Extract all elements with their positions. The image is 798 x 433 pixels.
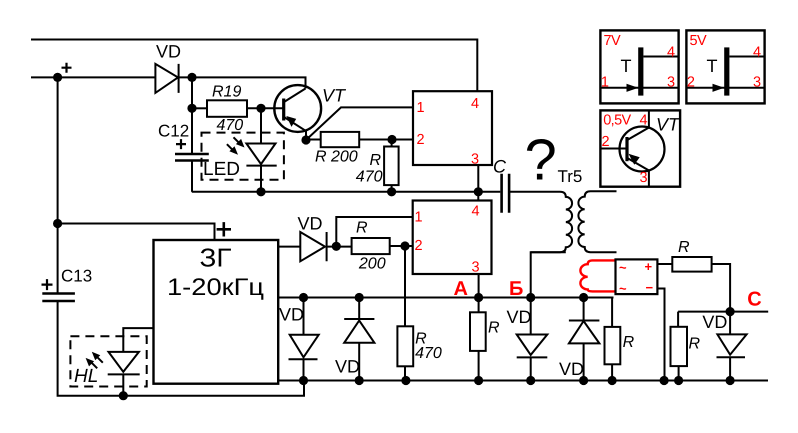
- inset transistor collector: [627, 110, 649, 140]
- svg-text:ЗГ: ЗГ: [200, 243, 232, 273]
- wire C13 bottom to lower ground: [58, 302, 304, 396]
- svg-text:R: R: [678, 239, 690, 256]
- HL dashed box: [70, 336, 146, 386]
- svg-text:7V: 7V: [604, 33, 621, 49]
- svg-text:?: ?: [525, 128, 557, 193]
- svg-text:~: ~: [619, 260, 627, 275]
- inset transistor emitter arrow: [629, 154, 640, 165]
- svg-text:R: R: [356, 220, 368, 237]
- inset 7V pin4 wire: [643, 56, 678, 58]
- inset box 7V: [600, 30, 678, 103]
- inset 7V pin1-3 wire: [600, 87, 678, 89]
- svg-text:VD: VD: [335, 356, 360, 376]
- svg-text:470: 470: [217, 117, 244, 134]
- wire mid ground line y192: [192, 191, 501, 193]
- svg-text:1: 1: [417, 100, 425, 116]
- svg-text:C: C: [493, 157, 507, 177]
- LED symbol: [246, 144, 276, 166]
- svg-text:3: 3: [753, 75, 761, 91]
- inset transistor base bar: [625, 137, 628, 161]
- resistor R200 upper: [321, 132, 360, 147]
- inset 7V arrow: [627, 84, 639, 92]
- wire IC2 pin3 to A and R column: [478, 274, 480, 381]
- wire VD bottom1: [303, 298, 305, 381]
- plus sign main supply: [62, 63, 72, 73]
- wire R200 right to IC1 pin2: [359, 139, 413, 141]
- svg-text:VD: VD: [298, 214, 323, 234]
- svg-text:Б: Б: [509, 278, 523, 300]
- inset transistor base wire: [600, 148, 626, 150]
- inset 7V pin numbers: [601, 45, 675, 91]
- inset box 0,5V: [600, 110, 680, 186]
- diode VD under B: [517, 335, 548, 358]
- svg-text:VD: VD: [279, 304, 304, 324]
- wire 3G output to diode: [278, 246, 300, 248]
- rectifier bridge box: [616, 259, 658, 294]
- svg-text:200: 200: [358, 256, 386, 273]
- diode VD bottom row 2 reversed: [344, 319, 374, 343]
- transformer primary left winding: [531, 192, 572, 252]
- wire R470low column: [404, 246, 406, 381]
- svg-text:2: 2: [687, 75, 695, 91]
- svg-text:Tr5: Tr5: [558, 167, 583, 186]
- wire diode to node, pin1 riser: [327, 217, 413, 247]
- LED HL symbol: [108, 352, 140, 375]
- wire R to C node corner: [712, 264, 731, 312]
- svg-text:C12: C12: [158, 121, 189, 140]
- transformer primary right winding: [578, 191, 616, 252]
- resistor R200 lower: [352, 238, 390, 254]
- wire IC1 pin3 down to node: [477, 165, 479, 192]
- wire C12 column: [191, 77, 193, 153]
- IC box U2: [413, 201, 492, 275]
- svg-text:R: R: [370, 152, 382, 169]
- plus sign C12: [176, 139, 186, 149]
- transistor VT emitter arrow: [286, 116, 296, 127]
- inset transistor circle: [620, 127, 665, 172]
- svg-text:1: 1: [415, 210, 423, 226]
- IC U1 pin labels: [417, 96, 480, 168]
- wire B right corner to R: [611, 298, 613, 381]
- wire R19 left: [192, 107, 207, 109]
- transistor VT collector/emitter: [284, 89, 306, 141]
- capacitor C coupling plates: [502, 174, 510, 213]
- inset 5V thick bar: [724, 47, 729, 95]
- resistor R under A: [470, 312, 486, 351]
- wire R200low right to IC2 pin2: [390, 245, 413, 247]
- plus sign 3G: [217, 222, 231, 236]
- plus sign C13: [42, 279, 53, 290]
- wire LED cathode column: [260, 165, 262, 192]
- wire IC1 pin1 diagonal from emitter: [306, 107, 413, 140]
- wire HL cathode: [122, 374, 124, 395]
- svg-text:С: С: [747, 289, 761, 311]
- wire emitter node to R200: [306, 139, 321, 141]
- wire R19 right to base: [247, 107, 283, 109]
- wire C line: [678, 311, 768, 313]
- svg-text:R: R: [689, 335, 701, 352]
- inset box 5V: [686, 30, 764, 103]
- capacitor C12 plates: [175, 154, 209, 161]
- resistor R on C branch: [671, 327, 688, 366]
- inset 5V pin numbers: [687, 45, 761, 91]
- diode VD zener-like reversed: [569, 321, 600, 344]
- wire rectifier plus to R: [657, 263, 672, 265]
- wire bottom rail: [278, 380, 768, 382]
- IC U2 pin labels: [415, 204, 480, 276]
- box 3G generator: [154, 240, 279, 384]
- svg-text:R: R: [623, 334, 635, 351]
- wire B node to transformer primary bottom: [531, 252, 566, 297]
- inset 5V arrow: [713, 84, 725, 92]
- wire line A-B y297: [278, 297, 613, 299]
- wire to 3G box plus corner: [58, 224, 215, 241]
- rectifier bridge labels: [619, 259, 654, 296]
- svg-text:R19: R19: [212, 84, 241, 101]
- svg-text:~: ~: [619, 281, 627, 296]
- svg-text:3: 3: [640, 170, 648, 186]
- transistor VT circle: [274, 85, 321, 132]
- wire C13 column from plus node: [57, 77, 59, 292]
- svg-text:T: T: [621, 56, 632, 76]
- inset 7V thick bar: [638, 47, 643, 95]
- wire C-line left corner to R column: [677, 312, 680, 381]
- LED dashed box: [202, 133, 284, 180]
- wire diode VD1 cathode to collector riser: [178, 77, 305, 88]
- svg-text:R: R: [488, 320, 500, 337]
- svg-text:1-20кГц: 1-20кГц: [167, 274, 264, 301]
- svg-text:VD: VD: [507, 307, 532, 327]
- resistor R470 lower: [397, 326, 413, 366]
- inset 5V pin4 wire: [729, 56, 764, 58]
- svg-text:5V: 5V: [690, 33, 707, 49]
- svg-text:0,5V: 0,5V: [603, 112, 631, 128]
- wire HL anode to 3G box: [123, 328, 153, 352]
- resistor R under B line: [605, 327, 621, 364]
- svg-text:4: 4: [667, 45, 675, 61]
- svg-text:R 200: R 200: [315, 149, 358, 166]
- LED arrows: [227, 137, 245, 155]
- wire C12 bottom to ground line: [191, 162, 193, 192]
- svg-text:HL: HL: [74, 366, 98, 387]
- wire plus rail left: [31, 76, 155, 78]
- diode VD bottom row 1: [289, 335, 319, 359]
- svg-text:4: 4: [471, 96, 479, 112]
- svg-text:4: 4: [472, 204, 480, 220]
- svg-text:470: 470: [415, 345, 442, 362]
- transistor VT base bar: [282, 99, 285, 121]
- svg-text:VD: VD: [702, 312, 727, 332]
- svg-text:А: А: [454, 278, 468, 300]
- svg-text:3: 3: [667, 75, 675, 91]
- wire rectifier minus output: [657, 289, 664, 381]
- svg-text:2: 2: [417, 132, 425, 148]
- wire LED anode column: [260, 108, 262, 143]
- capacitor C13 plates: [42, 294, 75, 302]
- wire C VD column: [729, 312, 731, 381]
- svg-text:−: −: [646, 280, 654, 295]
- resistor R19: [207, 100, 247, 117]
- svg-text:VD: VD: [559, 359, 584, 379]
- wire B VD column: [530, 298, 532, 381]
- svg-text:3: 3: [471, 152, 479, 168]
- diode VD under C: [717, 334, 747, 357]
- svg-text:VT: VT: [322, 86, 347, 106]
- svg-text:VT: VT: [656, 115, 681, 135]
- svg-text:+: +: [645, 259, 653, 274]
- svg-text:VD: VD: [156, 42, 181, 62]
- resistor R470 upper: [384, 147, 399, 186]
- svg-text:2: 2: [602, 134, 610, 150]
- svg-text:4: 4: [753, 45, 761, 61]
- svg-text:470: 470: [356, 168, 383, 185]
- wire R470up column: [391, 140, 393, 192]
- diode VD top-left: [155, 64, 178, 93]
- svg-text:3: 3: [472, 260, 480, 276]
- wire VD bottom2: [358, 298, 360, 381]
- LED HL arrows: [86, 352, 103, 369]
- resistor R output horizontal: [672, 257, 711, 272]
- inset transistor emitter: [627, 158, 649, 187]
- svg-text:T: T: [707, 56, 718, 76]
- IC box U1: [413, 91, 492, 165]
- diode VD after 3G: [300, 232, 326, 261]
- svg-text:LED: LED: [203, 159, 240, 180]
- wire IC2 pin4 up to node: [477, 192, 479, 201]
- svg-text:2: 2: [415, 238, 423, 254]
- svg-text:C13: C13: [61, 267, 92, 286]
- svg-text:1: 1: [601, 75, 609, 91]
- transformer Tr5 secondary winding (red): [580, 260, 615, 291]
- inset 5V pin2-3 wire: [686, 87, 764, 89]
- wire top rail to IC1 pin4: [31, 40, 477, 92]
- wire cap C right to transformer: [510, 191, 560, 193]
- wire zener VD column: [583, 298, 585, 381]
